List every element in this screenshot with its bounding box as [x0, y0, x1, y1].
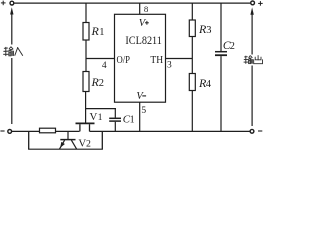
svg-text:1: 1: [98, 112, 103, 123]
svg-text:R: R: [91, 24, 100, 38]
label 输出 (output): [244, 55, 263, 64]
resistor R2 body: [83, 72, 89, 92]
V2 loop left vertical: [28, 131, 30, 149]
wire R2 bottom to V1 gate: [85, 92, 87, 123]
sense resistor (unlabeled): [40, 128, 56, 133]
op-amp IC U1 box: [115, 14, 166, 102]
MOSFET V1 bar: [76, 122, 95, 124]
resistor R3 column top: [191, 3, 193, 20]
V2 loop right vertical: [101, 131, 103, 149]
label 输入 (input): [3, 47, 23, 56]
svg-text:2: 2: [230, 41, 235, 52]
wire R1 to pin4 junction: [85, 40, 87, 72]
resistor R4 body: [189, 74, 195, 91]
wire R3 to R4: [191, 37, 193, 74]
output - terminal: [250, 129, 254, 133]
minus sign input: [0, 130, 4, 132]
V2 loop bottom wire: [28, 148, 103, 150]
pin 3 wire: [166, 58, 193, 60]
svg-text:O/P: O/P: [117, 54, 131, 66]
minus sign output: [258, 130, 262, 132]
transistor V2 collector: [71, 140, 76, 149]
input arrowhead: [10, 7, 13, 14]
pin 5 wire: [139, 102, 141, 131]
svg-text:4: 4: [102, 61, 107, 71]
svg-text:V: V: [90, 111, 98, 123]
output + terminal: [251, 1, 255, 5]
pin 8 wire: [139, 3, 141, 14]
svg-text:TH: TH: [150, 54, 163, 66]
wire R4 bottom to rail: [191, 91, 193, 132]
MOSFET V1 right leg: [89, 124, 91, 131]
svg-text:1: 1: [99, 27, 104, 38]
svg-text:2: 2: [86, 139, 91, 150]
svg-text:5: 5: [141, 106, 146, 116]
plus sign output: [258, 1, 263, 6]
transistor V2 emitter: [59, 140, 64, 149]
svg-text:4: 4: [206, 79, 212, 90]
top rail: [14, 2, 250, 4]
resistor R1 body: [83, 23, 89, 41]
output annotation arrow line: [251, 13, 253, 127]
svg-text:ICL8211: ICL8211: [125, 35, 162, 47]
output arrowhead: [250, 7, 253, 14]
svg-text:3: 3: [206, 25, 211, 36]
node pin4 wire: [86, 58, 115, 60]
capacitor C1 plates: [109, 117, 121, 119]
capacitor C1 top lead: [114, 109, 116, 118]
capacitor C2 top lead: [220, 3, 222, 51]
bottom rail right segment: [90, 130, 251, 132]
svg-text:V: V: [139, 18, 147, 29]
capacitor C2 plates: [215, 51, 227, 53]
resistor R1 column top: [85, 3, 87, 22]
wire gate node to C1: [86, 108, 116, 110]
transistor V2 base stub: [67, 131, 69, 139]
capacitor C1 bottom lead: [114, 122, 116, 132]
input + terminal: [10, 1, 14, 5]
transistor V2 base bar: [60, 139, 75, 141]
resistor R3 body: [189, 20, 195, 37]
transistor V2 emitter arrow: [60, 142, 65, 148]
svg-text:3: 3: [167, 60, 172, 70]
svg-text:2: 2: [99, 78, 104, 89]
capacitor C2 bottom lead: [220, 56, 222, 131]
plus sign input: [1, 1, 6, 6]
svg-text:8: 8: [144, 4, 149, 14]
input - terminal: [8, 130, 12, 134]
svg-text:1: 1: [130, 114, 135, 125]
MOSFET V1 left leg: [79, 124, 81, 131]
input annotation arrow line: [11, 13, 13, 125]
bottom rail left segment: [12, 130, 80, 132]
